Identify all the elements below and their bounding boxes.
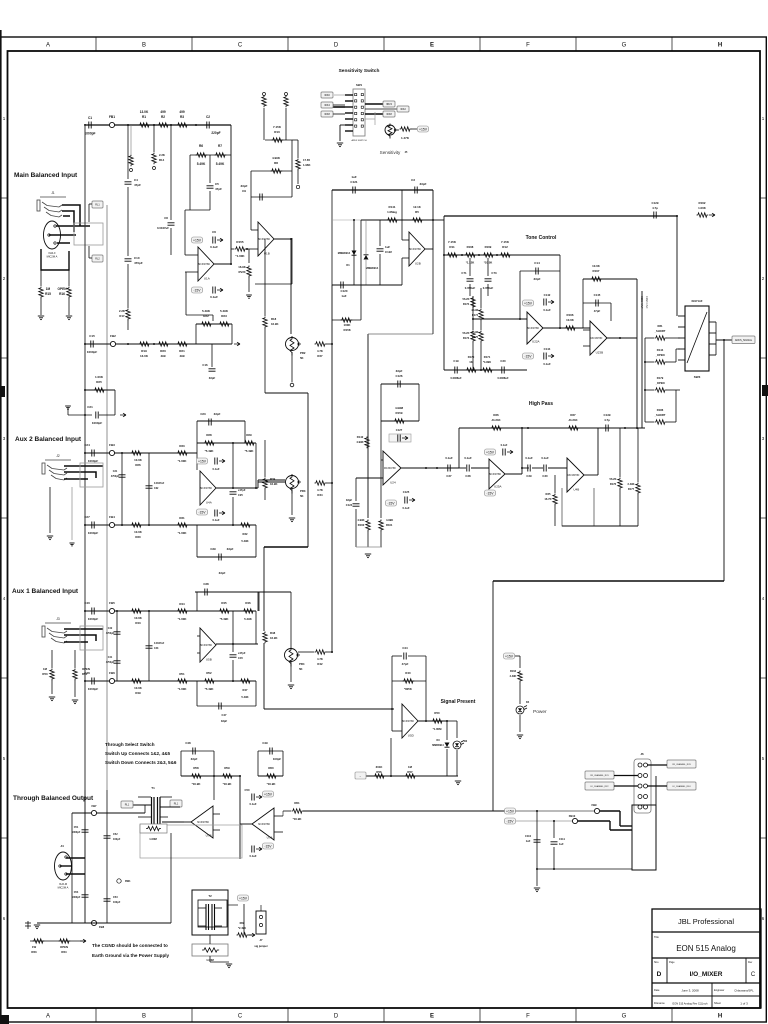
- svg-text:Through Select Switch: Through Select Switch: [105, 742, 155, 747]
- svg-text:FB9: FB9: [591, 803, 597, 807]
- wire R158 row: [332, 319, 361, 321]
- resistor R20: [158, 342, 170, 346]
- svg-text:3BV4: 3BV4: [386, 103, 393, 106]
- svg-text:*5.49K: *5.49K: [220, 617, 230, 621]
- capacitor C5: [207, 186, 214, 188]
- svg-text:R40: R40: [405, 671, 411, 675]
- wire: [80, 939, 86, 943]
- svg-text:Engineer: Engineer: [714, 988, 725, 992]
- svg-text:→: →: [359, 775, 362, 778]
- wire: [456, 750, 458, 776]
- wire thick select: [264, 546, 308, 548]
- svg-text:R12: R12: [502, 245, 508, 249]
- wire: [536, 811, 538, 884]
- svg-text:16.9K: 16.9K: [270, 636, 277, 640]
- svg-text:-15V: -15V: [506, 820, 514, 824]
- wire: [257, 480, 259, 488]
- svg-text:FB10: FB10: [569, 814, 576, 818]
- resistor R32b: [240, 523, 252, 527]
- wire: [326, 482, 332, 484]
- svg-text:A: A: [46, 43, 50, 49]
- svg-text:2.49K: 2.49K: [628, 482, 635, 486]
- wire: [381, 383, 419, 385]
- wire: [116, 611, 118, 681]
- wire pot rail: [265, 392, 308, 394]
- wire: [297, 170, 299, 184]
- svg-text:C39: C39: [210, 547, 216, 551]
- svg-text:sig jumper: sig jumper: [254, 944, 268, 948]
- svg-text:R10: R10: [274, 130, 280, 134]
- svg-text:C54: C54: [74, 891, 79, 894]
- wire: [480, 320, 482, 330]
- potentiometer PR3: [286, 476, 299, 489]
- svg-text:1M: 1M: [46, 287, 51, 291]
- capacitor C30: [544, 465, 546, 472]
- svg-text:5.49K: 5.49K: [216, 162, 225, 166]
- capacitor C19: [455, 367, 457, 374]
- wire: [425, 248, 433, 250]
- power +15V: [485, 449, 496, 455]
- wire: [578, 820, 610, 822]
- terminal pad: [296, 185, 299, 188]
- svg-text:C29: C29: [526, 474, 532, 478]
- wire: [258, 750, 283, 752]
- wire: [89, 203, 92, 205]
- svg-text:1uF: 1uF: [526, 839, 531, 843]
- wire: [127, 125, 129, 179]
- svg-text:J4.21K: J4.21K: [491, 418, 501, 422]
- wire: [214, 263, 231, 265]
- power -15V rail: [505, 818, 516, 824]
- svg-text:C139: C139: [604, 413, 611, 417]
- wire: [666, 337, 680, 339]
- svg-text:C27: C27: [84, 515, 90, 519]
- resistor R66: [237, 933, 249, 937]
- ground: [534, 888, 540, 892]
- svg-text:C24: C24: [84, 443, 90, 447]
- svg-text:C41: C41: [108, 656, 113, 659]
- wire: [250, 171, 252, 230]
- svg-text:100pF: 100pF: [113, 838, 121, 841]
- svg-text:499: 499: [179, 354, 184, 358]
- wire servo top: [332, 189, 433, 191]
- wire: [196, 453, 198, 470]
- wire: [298, 651, 314, 653]
- ferrite bead FB7: [91, 810, 96, 815]
- wire: [264, 328, 266, 393]
- wire: [666, 421, 676, 423]
- svg-text:C23: C23: [200, 412, 206, 416]
- wire: [209, 191, 211, 210]
- svg-text:0.1uF: 0.1uF: [212, 467, 219, 471]
- svg-text:5K: 5K: [299, 667, 303, 671]
- wire: [216, 643, 258, 645]
- svg-text:R29: R29: [246, 433, 252, 437]
- resistor R23: [219, 322, 231, 326]
- svg-text:R27: R27: [317, 354, 323, 358]
- wire: [185, 209, 210, 211]
- resistor R175: [479, 331, 483, 343]
- wire: [645, 389, 654, 391]
- svg-text:47pF: 47pF: [594, 309, 601, 313]
- power -15V: [263, 843, 274, 849]
- resistor R12a: [284, 96, 288, 108]
- capacitor C52: [104, 836, 111, 838]
- svg-text:R18: R18: [271, 317, 277, 321]
- svg-text:D: D: [334, 43, 339, 49]
- svg-text:B: B: [142, 1014, 146, 1020]
- wire: [68, 270, 70, 286]
- svg-text:33pF: 33pF: [227, 547, 234, 551]
- capacitor C46: [92, 678, 94, 685]
- svg-text:0.1uF: 0.1uF: [402, 506, 409, 510]
- capacitor C29: [528, 465, 530, 472]
- wire: [68, 414, 92, 416]
- svg-text:C28: C28: [465, 474, 471, 478]
- svg-text:U5B: U5B: [206, 658, 212, 662]
- svg-text:2.49K: 2.49K: [510, 675, 517, 678]
- svg-text:7.15K: 7.15K: [501, 240, 510, 244]
- svg-text:30K8: 30K8: [324, 113, 330, 116]
- svg-text:J4.21K: J4.21K: [568, 418, 578, 422]
- capacitor C44a: [114, 661, 121, 663]
- svg-text:*4.99K: *4.99K: [483, 360, 491, 364]
- wire mix bus left: [331, 285, 333, 652]
- resistor R11a: [262, 96, 266, 108]
- svg-text:R155: R155: [236, 240, 244, 244]
- ground: [288, 685, 294, 689]
- wire: [583, 302, 611, 304]
- diode D1: [352, 251, 357, 256]
- power +15V: [192, 237, 203, 243]
- svg-text:RV23: RV23: [239, 270, 246, 274]
- resistor R29: [244, 441, 256, 445]
- shield network box: [41, 249, 69, 270]
- svg-text:C48: C48: [185, 741, 191, 745]
- wire: [610, 303, 612, 321]
- DIP switch pins: [355, 94, 364, 128]
- net 30K8b: [383, 111, 395, 117]
- svg-text:C4: C4: [134, 178, 138, 182]
- svg-text:47pF: 47pF: [215, 187, 222, 191]
- svg-text:Sheet: Sheet: [714, 1001, 721, 1005]
- capacitor C129: [654, 212, 656, 219]
- svg-text:C5: C5: [215, 182, 219, 186]
- svg-text:_SHORT: _SHORT: [654, 329, 666, 333]
- wire: [181, 750, 214, 752]
- svg-text:FB3: FB3: [109, 443, 115, 447]
- svg-text:R11: R11: [449, 245, 455, 249]
- svg-text:0.1uF: 0.1uF: [212, 518, 219, 522]
- svg-text:R167: R167: [593, 269, 600, 273]
- op-amp U25A: [489, 459, 505, 489]
- svg-text:Signal Present: Signal Present: [441, 699, 476, 705]
- svg-text:R64: R64: [61, 950, 67, 954]
- power +15V: [197, 458, 208, 464]
- svg-text:7.15K: 7.15K: [448, 240, 457, 244]
- resistor R173: [471, 331, 475, 343]
- svg-text:33pF: 33pF: [191, 757, 198, 761]
- svg-text:R50: R50: [434, 711, 440, 715]
- svg-text:4.7p: 4.7p: [652, 206, 658, 210]
- wire: [519, 271, 521, 319]
- wire: [666, 361, 676, 363]
- resistor R33: [177, 451, 189, 455]
- wire: [184, 210, 186, 255]
- resistor R49: [131, 679, 143, 683]
- potentiometer PR4: [285, 649, 298, 662]
- wire: [264, 489, 266, 500]
- resistor R39: [263, 478, 267, 490]
- wire: [228, 904, 238, 906]
- DIP switch SW1: [353, 89, 365, 136]
- svg-text:R43: R43: [135, 621, 141, 625]
- capacitor C6: [213, 237, 215, 244]
- wire feedback: [190, 154, 231, 156]
- wire aux2 bottom: [85, 524, 197, 526]
- wire: [197, 420, 245, 422]
- capacitor C144: [544, 353, 546, 360]
- svg-text:1000pF: 1000pF: [88, 617, 99, 621]
- resistor R176: [618, 478, 622, 490]
- svg-text:R45: R45: [221, 601, 227, 605]
- svg-text:J2: J2: [56, 454, 60, 458]
- resistor R162: [697, 213, 709, 217]
- ground: [69, 543, 74, 546]
- capacitor C45: [230, 655, 237, 657]
- wire aux1 fb: [195, 591, 291, 593]
- wire: [554, 475, 556, 493]
- terminal pad: [130, 169, 133, 172]
- svg-text:U2B: U2B: [415, 262, 421, 266]
- wire: [255, 443, 257, 488]
- op-amp U24: [383, 451, 401, 485]
- svg-text:R34: R34: [317, 493, 323, 497]
- svg-text:10.0K: 10.0K: [134, 616, 143, 620]
- svg-text:R46: R46: [245, 601, 251, 605]
- capacitor C53: [104, 899, 111, 901]
- svg-text:Aux 2 Balanced Input: Aux 2 Balanced Input: [15, 436, 82, 443]
- wire: [562, 525, 638, 527]
- svg-text:C21: C21: [87, 405, 93, 409]
- svg-text:R63: R63: [31, 950, 37, 954]
- svg-text:R47: R47: [243, 688, 248, 692]
- svg-text:C1: C1: [88, 116, 92, 120]
- svg-text:MC33078D: MC33078D: [384, 468, 396, 470]
- svg-text:Switch Down Connects 2&3, 5&6: Switch Down Connects 2&3, 5&6: [105, 760, 177, 765]
- svg-text:C19: C19: [453, 359, 459, 363]
- svg-text:4.7K: 4.7K: [317, 657, 323, 661]
- wire: [40, 270, 42, 286]
- LED D2: [453, 741, 461, 749]
- svg-text:5.49K: 5.49K: [244, 617, 253, 621]
- svg-text:*1.00M: *1.00M: [433, 727, 443, 731]
- svg-text:2.2K: 2.2K: [159, 153, 165, 157]
- capacitor C3: [415, 187, 417, 194]
- svg-text:H: H: [718, 43, 722, 49]
- svg-text:10.0K: 10.0K: [134, 530, 143, 534]
- svg-text:R61: R61: [294, 801, 300, 805]
- wire: [144, 805, 146, 813]
- wire: [153, 125, 155, 152]
- svg-text:*5.49K: *5.49K: [205, 687, 215, 691]
- svg-text:MC33078D: MC33078D: [197, 822, 209, 824]
- transformer T1: [152, 797, 161, 824]
- svg-text:U25A: U25A: [494, 485, 502, 489]
- capacitor C110: [534, 840, 541, 842]
- wire: [380, 384, 382, 460]
- net 30K8: [321, 111, 333, 117]
- wire: [368, 333, 433, 335]
- resistor R14: [152, 153, 156, 165]
- svg-text:1K: 1K: [469, 360, 472, 364]
- capacitor C10: [125, 259, 132, 261]
- svg-text:+15V: +15V: [506, 810, 515, 814]
- wire: [245, 823, 252, 825]
- LED D4 Power: [516, 706, 524, 714]
- svg-text:16.7K: 16.7K: [544, 497, 551, 501]
- wire: [480, 342, 482, 370]
- svg-text:Chlausana/SPL: Chlausana/SPL: [734, 989, 754, 993]
- wire: [365, 108, 397, 110]
- wire: [285, 108, 287, 140]
- svg-text:0.1uF: 0.1uF: [541, 456, 549, 460]
- resistor R7: [215, 153, 227, 157]
- capacitor C50: [252, 794, 254, 801]
- svg-text:C: C: [238, 1014, 243, 1020]
- svg-text:C121: C121: [350, 180, 358, 184]
- svg-text:R53: R53: [42, 672, 48, 676]
- svg-text:R174: R174: [472, 313, 479, 317]
- svg-text:C25: C25: [238, 493, 243, 497]
- svg-text:24.9K: 24.9K: [472, 308, 479, 312]
- capacitor C2: [207, 122, 209, 129]
- svg-text:MC33078D: MC33078D: [409, 249, 421, 251]
- jack J1: [37, 197, 66, 217]
- resistor R21: [177, 342, 189, 346]
- wire: [411, 128, 417, 130]
- ground: [47, 536, 53, 540]
- net LF_CHANNEL_RX4: [667, 782, 696, 790]
- net 30K2: [397, 106, 409, 112]
- wire: [515, 655, 520, 657]
- svg-text:+15V: +15V: [524, 302, 533, 306]
- wire: [51, 650, 53, 668]
- svg-text:D: D: [334, 1014, 339, 1020]
- wire: [584, 474, 598, 476]
- svg-text:R161: R161: [386, 523, 393, 527]
- svg-text:Title: Title: [654, 935, 659, 939]
- wire: [391, 656, 393, 731]
- resistor R35: [553, 494, 557, 506]
- svg-text:Sensitivity: Sensitivity: [380, 150, 401, 155]
- wire: [472, 296, 474, 319]
- wire: [355, 478, 357, 501]
- resistor R164: [400, 127, 412, 131]
- resistor R50: [432, 719, 444, 723]
- resistor R27: [315, 342, 327, 346]
- wire: [675, 390, 677, 422]
- svg-text:Tone Control: Tone Control: [526, 235, 557, 241]
- wire: [232, 611, 234, 652]
- wire U1B out: [274, 238, 291, 240]
- wire: [360, 285, 362, 320]
- switch SW3 pins: [678, 316, 716, 360]
- svg-text:SW3: SW3: [694, 375, 701, 379]
- capacitor C26: [215, 458, 217, 465]
- wire U24 in: [356, 477, 383, 479]
- wire: [30, 940, 86, 942]
- wire: [493, 810, 504, 812]
- wire: [392, 655, 402, 657]
- svg-text:FB4: FB4: [109, 515, 115, 519]
- earth ground: [25, 921, 31, 929]
- wire: [213, 776, 215, 800]
- op-amp U2B: [409, 232, 425, 266]
- power +15V: [504, 653, 515, 659]
- svg-text:+15V: +15V: [264, 793, 273, 797]
- svg-text:0.0047uF: 0.0047uF: [154, 642, 165, 645]
- svg-text:R141: R141: [389, 205, 396, 209]
- svg-text:33pF: 33pF: [396, 369, 403, 373]
- svg-text:5.49K: 5.49K: [197, 162, 206, 166]
- svg-text:Page: Page: [669, 961, 675, 964]
- wire: [181, 775, 240, 777]
- jack J3: [42, 623, 71, 643]
- svg-text:R58: R58: [193, 766, 199, 770]
- resistor R174: [479, 309, 483, 321]
- svg-text:R60: R60: [268, 766, 274, 770]
- ground: [246, 295, 252, 298]
- wire: [456, 721, 458, 738]
- svg-text:C10: C10: [134, 256, 140, 260]
- resistor R168: [465, 253, 477, 257]
- wire: [366, 775, 458, 777]
- svg-text:33pF: 33pF: [419, 182, 426, 186]
- resistor R36: [491, 426, 503, 430]
- resistor R169: [483, 253, 495, 257]
- op-amp U4B: [567, 458, 584, 492]
- wire: [209, 155, 211, 183]
- resistor R45: [219, 609, 231, 613]
- resistor R170: [466, 368, 478, 372]
- resistor R44: [177, 609, 189, 613]
- svg-text:+15V: +15V: [505, 655, 514, 659]
- svg-text:R160: R160: [358, 523, 365, 527]
- wire: [197, 705, 256, 707]
- svg-text:4.99K: 4.99K: [272, 156, 281, 160]
- svg-text:10.0K: 10.0K: [134, 686, 143, 690]
- wire: [583, 278, 637, 280]
- wire: [472, 319, 474, 330]
- svg-text:1M: 1M: [43, 667, 48, 671]
- wire: [258, 481, 285, 483]
- svg-text:_SHORT: _SHORT: [654, 413, 666, 417]
- svg-text:C127: C127: [396, 428, 403, 432]
- net 30K0: [321, 92, 333, 98]
- svg-text:5.49K: 5.49K: [220, 309, 229, 313]
- wire: [230, 125, 232, 264]
- wire: [84, 790, 86, 923]
- svg-text:33pF: 33pF: [214, 412, 221, 416]
- wire: [88, 246, 90, 258]
- capacitor C32: [146, 486, 153, 488]
- svg-text:U23B: U23B: [596, 351, 604, 355]
- svg-text:XLR-M: XLR-M: [59, 882, 67, 886]
- svg-text:Main Balanced Input: Main Balanced Input: [14, 172, 78, 179]
- jack J2aux: [42, 460, 71, 480]
- wire: [160, 796, 172, 798]
